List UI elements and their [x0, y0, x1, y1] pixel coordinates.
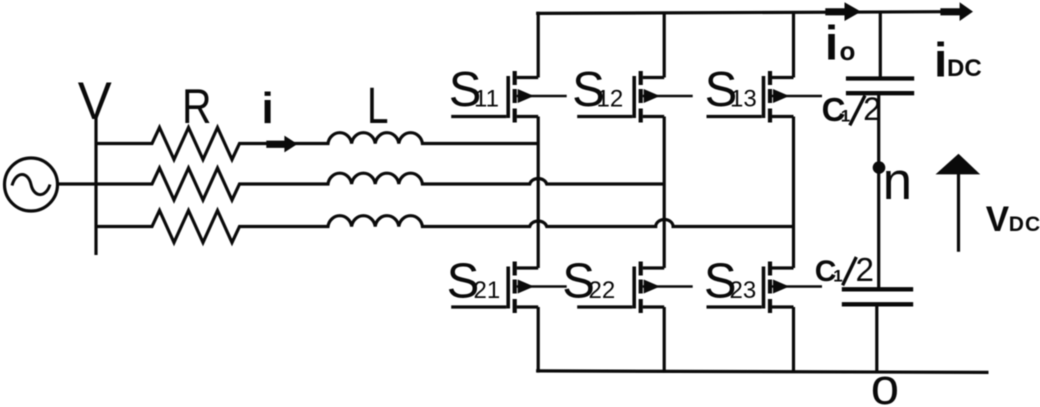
svg-text:21: 21	[474, 277, 501, 304]
svg-text:R: R	[182, 79, 212, 134]
svg-text:i: i	[934, 34, 947, 87]
svg-text:i: i	[825, 17, 838, 70]
svg-text:o: o	[871, 358, 899, 407]
svg-text:V: V	[986, 200, 1010, 239]
svg-text:i: i	[262, 84, 274, 133]
svg-text:22: 22	[589, 277, 616, 304]
svg-text:L: L	[367, 77, 389, 134]
svg-text:1: 1	[841, 107, 850, 126]
svg-text:1: 1	[833, 267, 842, 286]
svg-text:11: 11	[474, 85, 499, 112]
svg-text:o: o	[840, 36, 856, 66]
svg-text:12: 12	[597, 85, 624, 112]
svg-text:DC: DC	[1009, 213, 1040, 236]
svg-text:DC: DC	[947, 55, 982, 82]
svg-text:2: 2	[856, 251, 875, 288]
svg-text:23: 23	[730, 277, 757, 304]
svg-text:V: V	[78, 72, 112, 131]
svg-text:13: 13	[730, 85, 757, 112]
svg-text:n: n	[883, 152, 912, 211]
